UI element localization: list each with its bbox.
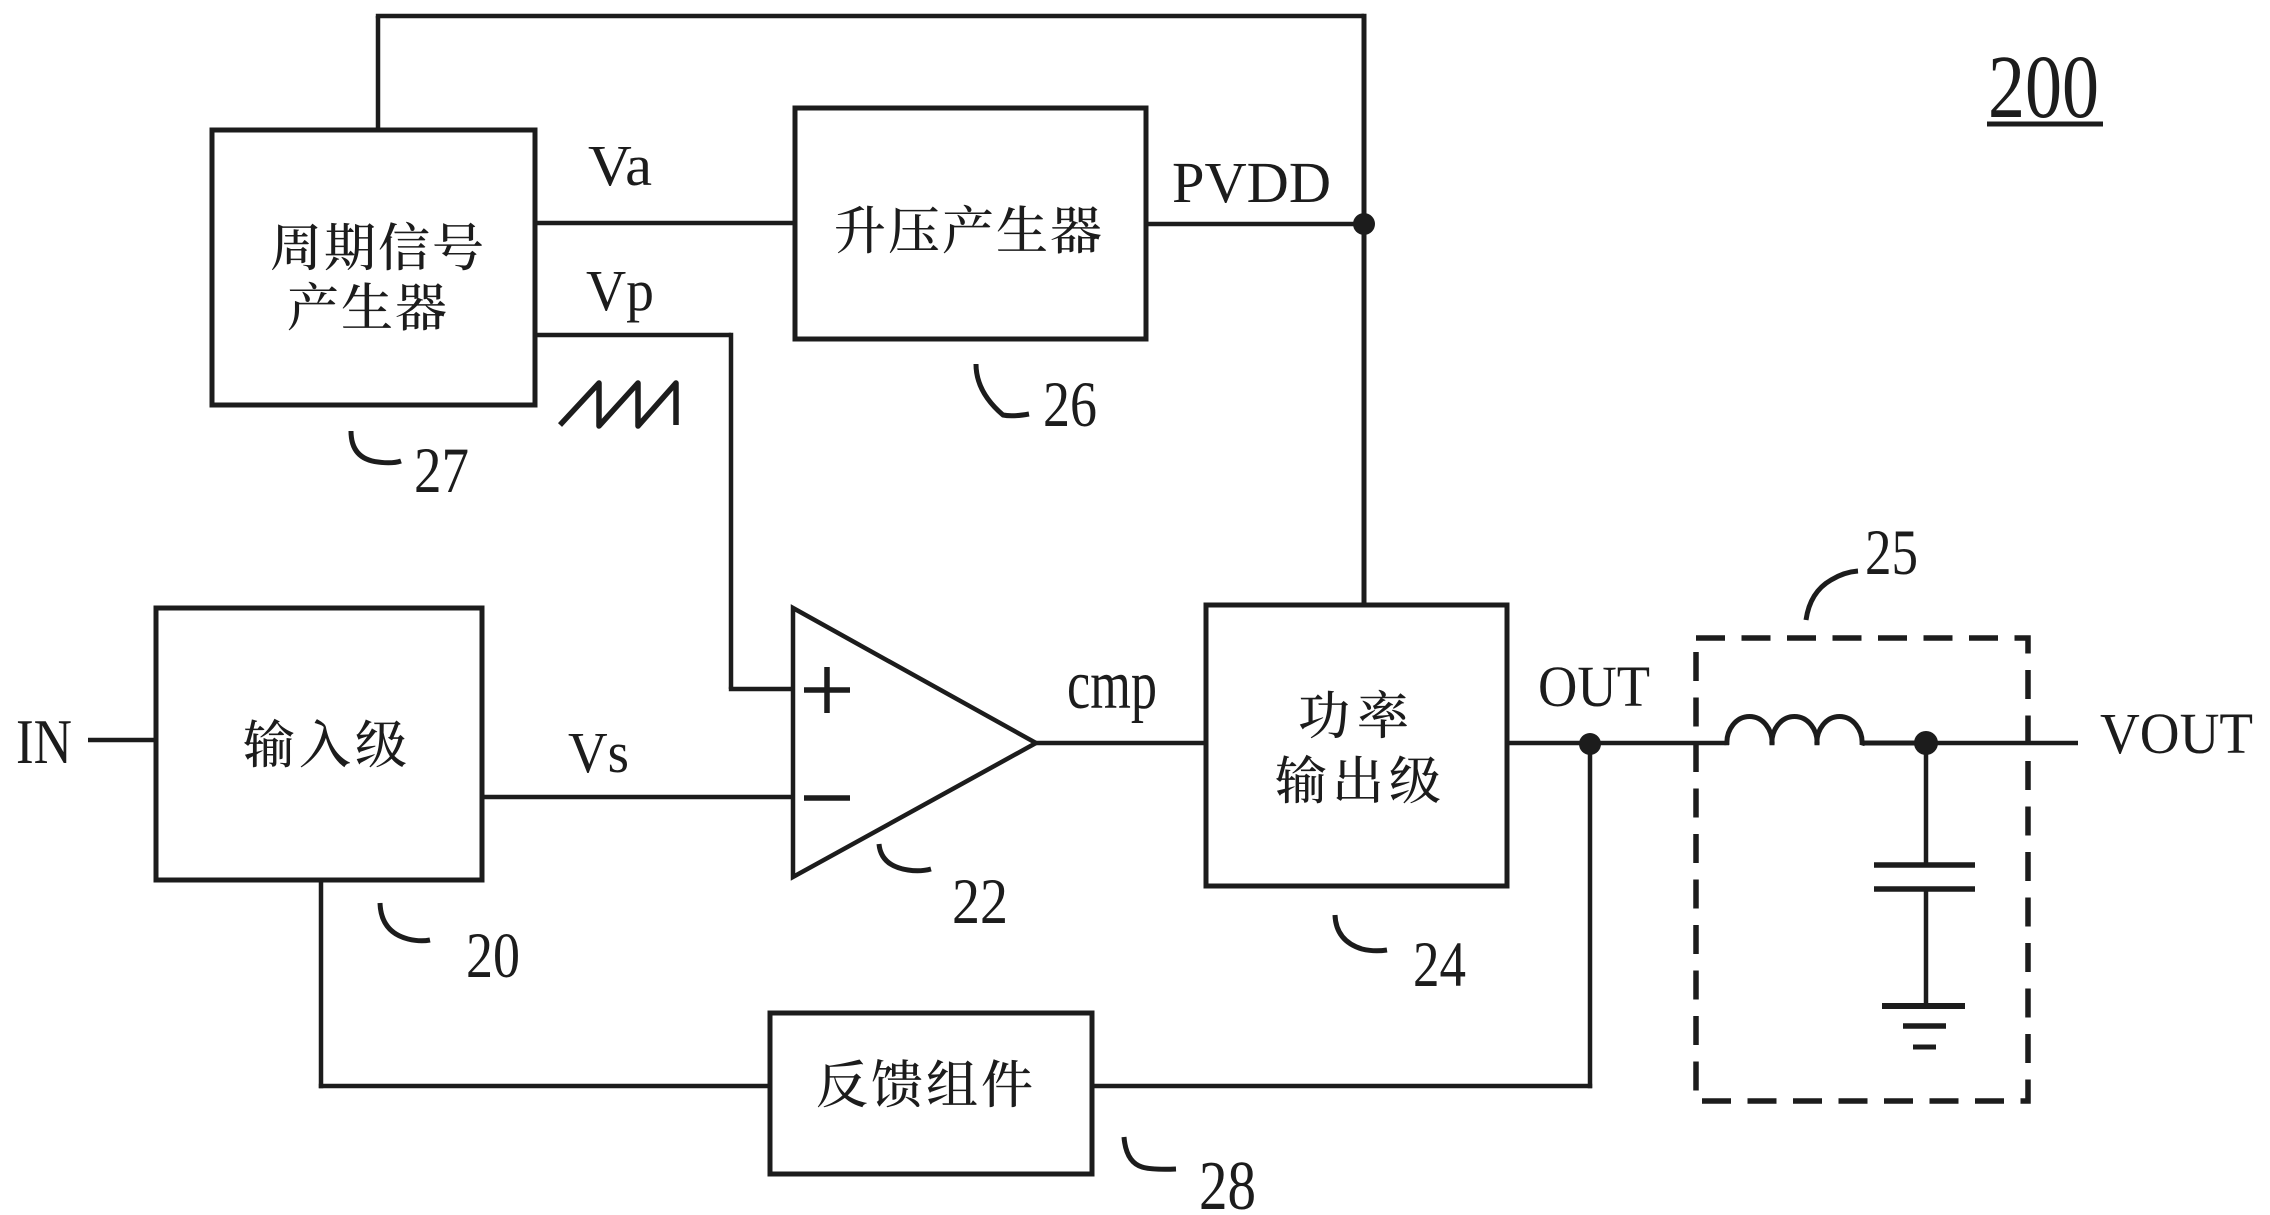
inductor L (4 humps) bbox=[1727, 717, 1926, 745]
node: LC junction dot bbox=[1914, 731, 1938, 755]
comparator + input symbol bbox=[804, 667, 850, 713]
block 27 text line1: 周期信号 bbox=[272, 222, 482, 271]
wire: VOUT output bbox=[1926, 741, 2078, 746]
node: PVDD junction dot bbox=[1353, 213, 1375, 235]
svg-text:Va: Va bbox=[588, 133, 652, 198]
svg-text:25: 25 bbox=[1865, 517, 1918, 589]
leader tick for 26 bbox=[976, 364, 1029, 416]
svg-text:Vp: Vp bbox=[586, 258, 654, 323]
block 27: periodic signal generator box bbox=[212, 130, 535, 405]
wire: right rail down from top to box24 (through PVDD node) bbox=[1362, 14, 1367, 605]
wire: Vp vertical down bbox=[729, 333, 734, 689]
svg-text:VOUT: VOUT bbox=[2100, 701, 2253, 766]
wire: top rail horizontal bbox=[376, 14, 1364, 19]
svg-text:PVDD: PVDD bbox=[1172, 150, 1331, 215]
block 26: boost generator box bbox=[795, 108, 1146, 339]
svg-text:22: 22 bbox=[952, 866, 1008, 938]
capacitor C lead bottom bbox=[1924, 889, 1929, 1006]
svg-text:24: 24 bbox=[1413, 929, 1466, 1001]
block 28: feedback component box bbox=[770, 1013, 1092, 1174]
block 27 text line2: 产生器 bbox=[289, 282, 446, 331]
sawtooth waveform symbol bbox=[560, 383, 676, 426]
block 24: power output stage box bbox=[1206, 605, 1507, 886]
leader tick for 22 bbox=[879, 844, 931, 871]
capacitor C lead top bbox=[1924, 743, 1929, 865]
block 24 text line2: 输出级 bbox=[1276, 755, 1440, 804]
wire: feedback horizontal right of box28 bbox=[1092, 1084, 1592, 1089]
wire: IN input bbox=[88, 738, 156, 743]
block 20: input stage box bbox=[156, 608, 482, 880]
svg-text:28: 28 bbox=[1199, 1148, 1256, 1215]
block 20 text: 输入级 bbox=[244, 719, 406, 768]
capacitor C plates bbox=[1874, 865, 1975, 889]
wire: Va from box27 to box26 bbox=[535, 221, 795, 226]
wire: Vp horizontal from box27 bbox=[535, 333, 731, 338]
ground symbol bbox=[1882, 1006, 1965, 1047]
block 26 text: 升压产生器 bbox=[836, 205, 1101, 254]
leader tick for 28 bbox=[1124, 1137, 1176, 1169]
wire: cmp from comparator to box24 bbox=[1036, 741, 1206, 746]
wire: feedback vertical from OUT node bbox=[1588, 743, 1593, 1088]
wire: vertical from box20 bottom to feedback bbox=[319, 880, 324, 1088]
dashed box 25: LC output filter bbox=[1696, 638, 2028, 1101]
comparator - input symbol bbox=[804, 795, 850, 801]
svg-text:Vs: Vs bbox=[568, 720, 629, 785]
block 24 text line1: 功率 bbox=[1300, 690, 1407, 738]
op-amp comparator U22 triangle bbox=[793, 608, 1036, 877]
wire: Vs from box20 to comparator - input bbox=[482, 795, 795, 800]
block 28 text: 反馈组件 bbox=[818, 1059, 1032, 1107]
wire: PVDD from box26 to node bbox=[1146, 222, 1364, 227]
svg-text:20: 20 bbox=[466, 920, 520, 992]
svg-text:IN: IN bbox=[16, 706, 72, 777]
node: OUT junction dot bbox=[1579, 733, 1601, 755]
leader tick for 24 bbox=[1335, 915, 1387, 951]
leader tick for 20 bbox=[380, 903, 430, 941]
wire: box27 top to top rail bbox=[376, 16, 381, 130]
wire: feedback horizontal left of box28 bbox=[319, 1084, 770, 1089]
leader tick for 25 bbox=[1806, 571, 1858, 620]
svg-text:26: 26 bbox=[1043, 369, 1097, 441]
leader tick for 27 bbox=[351, 431, 401, 463]
underline of 200 bbox=[1987, 122, 2103, 127]
svg-text:OUT: OUT bbox=[1538, 654, 1650, 719]
svg-text:27: 27 bbox=[414, 435, 469, 507]
wire: OUT from box24 into filter bbox=[1507, 741, 1729, 746]
svg-text:cmp: cmp bbox=[1067, 647, 1157, 724]
wire: Vp into comparator + input bbox=[729, 687, 795, 692]
